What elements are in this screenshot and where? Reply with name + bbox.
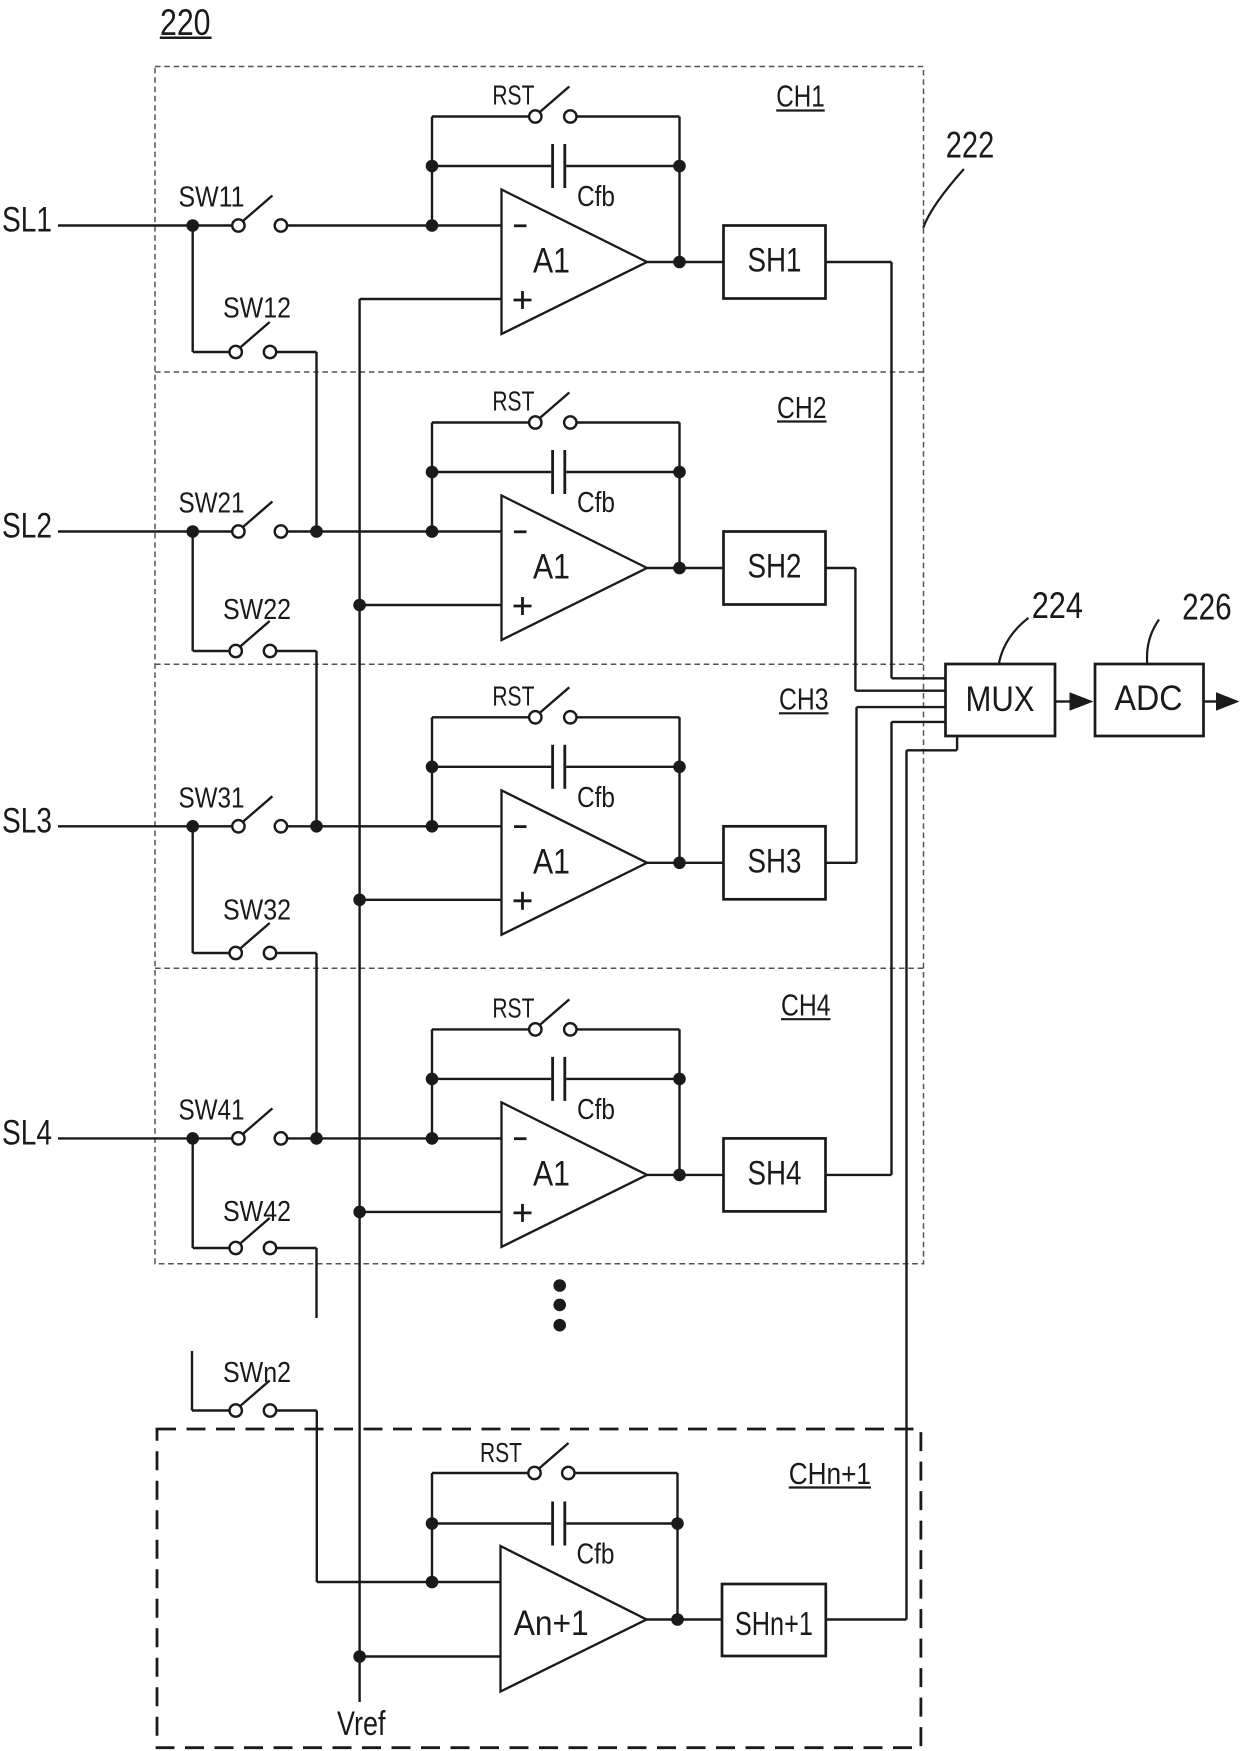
switch RST CH1 left contact [529,110,541,122]
op-amp CH3 minus pin mark [514,825,527,828]
svg-text:SHn+1: SHn+1 [735,1605,813,1642]
switch RST CH3 blade [540,687,570,713]
switch SW11 left contact [232,219,244,231]
op-amp CH4 plus pin mark h [514,1212,532,1215]
capacitor Cfb CH3 left plate [551,745,554,789]
op-amp CH1 minus pin mark [514,224,527,227]
ellipsis dot 2 [553,1299,566,1312]
junction dot SL4/SW42 branch [186,1132,199,1145]
op-amp CH3 plus pin mark h [514,899,532,902]
wire Cfb right CHn+1 [566,1522,677,1524]
op-amp CH4 minus pin mark [514,1137,527,1140]
op-amp CH1 plus pin mark v [521,291,524,309]
svg-text:Vref: Vref [337,1705,386,1743]
svg-text:SH4: SH4 [748,1154,802,1192]
bold dashed box CHn+1 [157,1429,921,1748]
svg-text:Cfb: Cfb [577,1539,615,1571]
svg-text:SW32: SW32 [223,895,291,927]
op-amp CH4 plus pin mark v [521,1204,524,1222]
svg-text:CH2: CH2 [777,390,827,425]
svg-text:SW42: SW42 [223,1196,291,1228]
capacitor Cfb CH3 right plate [563,745,566,789]
junction dot column feed CH3 [310,820,323,833]
capacitor Cfb CH2 left plate [551,450,554,494]
wire Cfb left CH3 [432,766,551,768]
underline CH2 [777,420,827,422]
svg-text:A1: A1 [533,1154,570,1193]
wire SH3 into MUX [857,706,946,708]
junction dot Cfb-left CH3 [426,761,439,774]
dashed channel-bank box (CH1-CH4) [155,67,924,1264]
wire SW12 drop from SL [191,226,193,353]
switch SW11 blade [243,196,273,222]
switch RST CH3 right contact [564,711,576,723]
wire SL2 input [58,530,232,532]
wire inverting input CH3 [287,825,501,827]
svg-text:Cfb: Cfb [577,782,615,814]
switch SW41 right contact [275,1132,287,1144]
wire feedback left vertical CH1 [431,117,433,226]
underline CH3 [779,712,829,714]
svg-text:SH3: SH3 [748,842,802,880]
wire SW22 drop from SL [191,532,193,652]
block SH4 [724,1138,826,1211]
switch RST CHn+1 left contact [528,1467,540,1479]
switch SW12 blade [240,322,270,348]
ellipsis dot 3 [553,1319,566,1332]
svg-text:A1: A1 [533,548,570,587]
wire SH4 to column [826,1174,892,1176]
switch SW31 blade [243,796,273,822]
switch SW12 right contact [264,346,276,358]
block MUX [946,664,1056,736]
wire non-inverting input CH2 [360,604,502,606]
wire RST top-left CHn+1 [432,1472,528,1474]
svg-text:SL1: SL1 [2,201,52,240]
junction dot Cfb-right CH1 [673,160,686,173]
wire RST top-right CH2 [577,421,680,423]
ellipsis dot 1 [553,1279,566,1292]
wire Cfb left CH1 [432,165,551,167]
wire SW12 to column [276,351,316,353]
junction dot column feed CH2 [310,525,323,538]
wire SHn+1 into MUX bottom [956,736,958,750]
Vref rail (vertical wire) [358,299,360,1702]
switch SW11 right contact [275,219,287,231]
junction dot Cfb-left CHn+1 [426,1517,439,1530]
wire SW22 to column [276,650,316,652]
svg-text:222: 222 [946,124,994,165]
wire SH2 column down [854,568,856,691]
callout curve 222 [923,169,964,228]
wire inverting input CHn+1 [317,1581,501,1583]
svg-text:CH4: CH4 [781,987,831,1022]
switch SW42 left contact [230,1242,242,1254]
junction dot output CH1 [673,256,686,269]
wire op-amp output CH2 [647,567,724,569]
junction dot Cfb-left CH4 [426,1073,439,1086]
svg-text:RST: RST [492,680,534,711]
svg-text:SW31: SW31 [179,782,245,814]
underline CH1 [776,109,825,111]
wire feedback left vertical CHn+1 [431,1473,433,1582]
wire feedback right vertical CHn+1 [676,1473,678,1620]
svg-text:Cfb: Cfb [577,1094,615,1126]
svg-text:ADC: ADC [1115,679,1183,718]
switch RST CHn+1 blade [539,1443,569,1469]
svg-text:SW11: SW11 [179,182,245,214]
underline for 220 [160,37,212,40]
svg-text:CH1: CH1 [776,79,825,114]
junction dot Cfb-left CH1 [426,160,439,173]
wire RST top-right CH3 [577,716,680,718]
node minus input CH1 (junction dot) [426,219,439,232]
wire RST top-left CH2 [432,421,529,423]
svg-text:SW22: SW22 [223,594,291,626]
capacitor Cfb CH1 right plate [563,144,566,188]
op-amp CH1 plus pin mark h [514,299,532,302]
switch RST CH4 left contact [529,1023,541,1035]
wire RST top-left CH1 [432,115,529,117]
switch RST CH1 blade [540,87,570,113]
wire non-inverting input CH3 [360,899,502,901]
svg-text:SL4: SL4 [2,1113,52,1152]
callout curve 224 [999,618,1029,665]
wire SW22 to left contact [193,650,230,652]
switch SW42 blade [240,1218,270,1244]
block SH2 [724,532,826,605]
svg-text:CHn+1: CHn+1 [789,1456,871,1491]
wire SH4 into MUX [892,721,946,723]
wire SHn+1 jog right [907,749,958,751]
op-amp CH2 plus pin mark v [521,597,524,615]
wire feedback right vertical CH3 [678,717,680,863]
wire SWn2 to left contact [192,1409,230,1411]
switch RST CHn+1 right contact [562,1467,574,1479]
dashed separator CH1/CH2 [155,371,924,373]
op-amp An+1 [501,1546,647,1692]
wire SL3 input [58,825,232,827]
wire inverting input CH2 [287,530,501,532]
capacitor Cfb CH4 left plate [551,1057,554,1101]
switch RST CH2 blade [540,393,570,419]
switch RST CH1 right contact [564,110,576,122]
wire SW22 column drop [315,651,317,826]
wire SH4 column up [890,722,892,1175]
switch SW31 left contact [232,820,244,832]
switch RST CH4 blade [540,999,570,1025]
wire Cfb right CH4 [566,1078,679,1080]
junction dot SL2/SW22 branch [186,525,199,538]
wire Cfb left CH4 [432,1078,551,1080]
wire feedback left vertical CH3 [431,717,433,826]
switch SW32 blade [240,923,270,949]
wire SW32 to left contact [193,952,230,954]
wire inverting input CH4 [287,1137,501,1139]
arrowhead ADC output [1216,692,1240,710]
wire SW32 drop from SL [191,826,193,953]
op-amp A1 CH2 [502,496,648,641]
op-amp A1 CH1 [502,190,648,335]
junction dot Vref tap CH2 [353,599,366,612]
wire feedback left vertical CH2 [431,423,433,532]
wire SW42 to column [276,1247,316,1249]
junction dot output CHn+1 [671,1613,684,1626]
wire SH1 into MUX [892,677,946,679]
switch SW22 right contact [264,645,276,657]
wire Cfb right CH3 [566,766,679,768]
dashed separator CH2/CH3 [155,663,924,665]
junction dot minus node CHn+1 [426,1576,439,1589]
switch SW41 blade [243,1108,273,1134]
svg-text:Cfb: Cfb [577,181,615,213]
switch SW21 left contact [232,525,244,537]
wire SW12 column drop [315,352,317,532]
wire SW42 column drop [315,1248,317,1318]
switch SW32 right contact [264,947,276,959]
node minus input CH3 (junction dot) [426,820,439,833]
wire feedback right vertical CH1 [678,117,680,263]
wire ADC output [1204,700,1217,702]
svg-text:SW12: SW12 [223,293,291,325]
block SHn+1 [722,1584,826,1656]
svg-text:SL3: SL3 [2,801,52,840]
junction dot Cfb-right CH3 [673,761,686,774]
svg-text:RST: RST [492,992,534,1023]
switch SWn2 blade [240,1381,270,1407]
wire SH1 column down [890,262,892,678]
junction dot Cfb-left CH2 [426,466,439,479]
op-amp A1 CH3 [502,790,648,935]
wire feedback left vertical CH4 [431,1029,433,1138]
wire non-inverting input CHn+1 [360,1655,501,1657]
wire RST top-right CH1 [577,115,680,117]
switch SW42 right contact [264,1242,276,1254]
dashed separator CH3/CH4 [155,967,924,969]
junction dot Vref tap CHn+1 [353,1650,366,1663]
wire SL1 input [58,224,232,226]
junction dot Cfb-right CH2 [673,466,686,479]
wire SH2 into MUX [855,690,945,692]
capacitor Cfb CH1 left plate [551,144,554,188]
wire Cfb left CH2 [432,471,551,473]
underline CHn+1 [789,1486,871,1488]
wire Cfb left CHn+1 [432,1522,551,1524]
junction dot output CH4 [673,1169,686,1182]
switch SW22 blade [240,621,270,647]
wire RST top-left CH4 [432,1028,529,1030]
svg-text:RST: RST [492,80,534,111]
switch RST CH3 left contact [529,711,541,723]
svg-text:A1: A1 [533,842,570,881]
wire inverting input CH1 [287,224,501,226]
capacitor Cfb CHn+1 left plate [551,1502,554,1546]
switch RST CH4 right contact [564,1023,576,1035]
wire non-inverting input CH1 [360,298,502,300]
svg-text:SL2: SL2 [2,507,52,546]
svg-text:SW41: SW41 [179,1094,245,1126]
wire SW12 to left contact [193,351,230,353]
wire SH3 column up [855,707,857,863]
switch SWn2 right contact [264,1404,276,1416]
wire RST top-right CHn+1 [575,1472,678,1474]
svg-text:SH2: SH2 [748,548,802,586]
node minus input CH4 (junction dot) [426,1132,439,1145]
wire SH2 to column [826,567,856,569]
wire SH1 to column [826,261,892,263]
op-amp CH2 plus pin mark h [514,605,532,608]
arrowhead MUX to ADC [1070,692,1094,710]
wire SW42 to left contact [193,1247,230,1249]
svg-text:Cfb: Cfb [577,487,615,519]
wire RST top-right CH4 [577,1028,680,1030]
switch SW32 left contact [230,947,242,959]
wire feedback right vertical CH4 [678,1029,680,1175]
wire SWn2 to column [276,1409,317,1411]
wire non-inverting input CH4 [360,1211,502,1213]
switch SW21 right contact [275,525,287,537]
switch SW41 left contact [232,1132,244,1144]
wire op-amp output CH3 [647,862,724,864]
switch SW21 blade [243,502,273,528]
op-amp CH2 minus pin mark [514,530,527,533]
junction dot output CH2 [673,562,686,575]
wire SL4 input [58,1137,232,1139]
svg-text:A1: A1 [533,242,570,281]
wire SHn+1 to column [826,1618,907,1620]
junction dot Cfb-right CH4 [673,1073,686,1086]
switch RST CH2 right contact [564,416,576,428]
wire Cfb right CH2 [566,471,679,473]
node minus input CH2 (junction dot) [426,525,439,538]
switch RST CH2 left contact [529,416,541,428]
capacitor Cfb CH2 right plate [563,450,566,494]
svg-text:An+1: An+1 [514,1604,589,1643]
wire SW32 column drop [315,953,317,1138]
junction dot column feed CH4 [310,1132,323,1145]
svg-text:RST: RST [492,386,534,417]
junction dot SL1/SW12 branch [186,219,199,232]
wire RST top-left CH3 [432,716,529,718]
underline CH4 [781,1018,831,1020]
switch SW12 left contact [230,346,242,358]
svg-text:SH1: SH1 [748,242,802,280]
switch SW31 right contact [275,820,287,832]
block SH1 [724,226,826,299]
capacitor Cfb CHn+1 right plate [563,1502,566,1546]
wire SWn2 stub from above [191,1351,193,1411]
svg-text:226: 226 [1182,587,1232,628]
svg-text:MUX: MUX [966,680,1035,719]
junction dot output CH3 [673,857,686,870]
wire SW42 drop from SL [191,1138,193,1248]
wire SHn+1 column up [905,750,907,1619]
capacitor Cfb CH4 right plate [563,1057,566,1101]
switch SW22 left contact [230,645,242,657]
block SH3 [724,826,826,899]
wire SW32 to column [276,952,316,954]
wire SWn2 column drop [316,1411,318,1583]
wire Cfb right CH1 [566,165,679,167]
svg-text:SW21: SW21 [179,488,245,520]
switch SWn2 left contact [230,1404,242,1416]
wire op-amp output CHn+1 [647,1618,723,1620]
block ADC [1095,664,1204,736]
op-amp A1 CH4 [502,1102,648,1247]
svg-text:SWn2: SWn2 [223,1357,291,1389]
op-amp CH3 plus pin mark v [521,892,524,910]
junction dot Cfb-right CHn+1 [671,1517,684,1530]
wire feedback right vertical CH2 [678,423,680,569]
junction dot Vref tap CH4 [353,1206,366,1219]
svg-text:CH3: CH3 [779,681,829,716]
svg-text:RST: RST [480,1437,522,1468]
wire op-amp output CH1 [647,261,724,263]
wire op-amp output CH4 [647,1174,724,1176]
wire MUX to ADC [1055,700,1071,702]
junction dot Vref tap CH3 [353,894,366,907]
wire SH3 to column [826,862,857,864]
svg-text:224: 224 [1032,585,1083,626]
junction dot SL3/SW32 branch [186,820,199,833]
callout curve 226 [1147,620,1159,666]
